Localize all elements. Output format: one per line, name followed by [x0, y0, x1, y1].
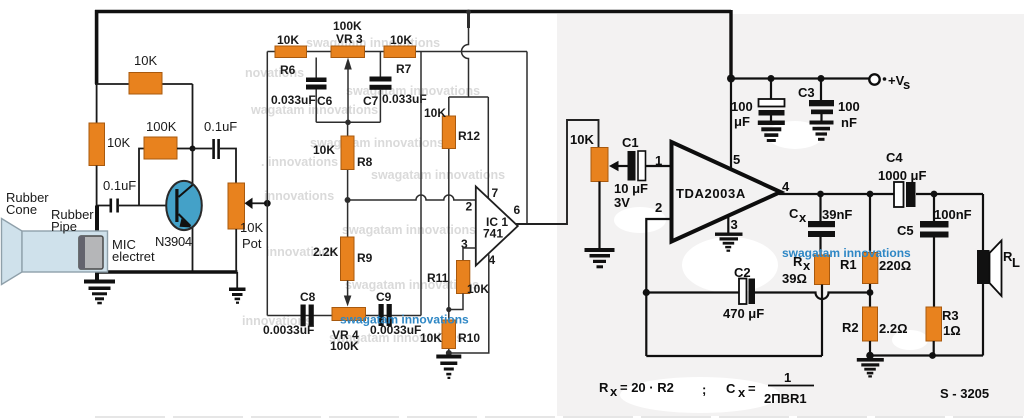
wire ground rail right	[866, 352, 983, 360]
ground pin3 TDA	[715, 216, 743, 252]
wire top row	[267, 51, 527, 53]
svg-text:innovations: innovations	[264, 189, 334, 203]
terminal +Vs	[869, 73, 910, 92]
resistor Rx	[782, 254, 830, 356]
svg-text:10 μF: 10 μF	[614, 181, 648, 196]
svg-text:7: 7	[492, 186, 499, 200]
svg-text:Cone: Cone	[6, 202, 37, 217]
resistor 10K top-left	[129, 53, 162, 94]
wire pin5 TDA	[730, 79, 732, 172]
svg-text:0.1uF: 0.1uF	[103, 178, 136, 193]
capacitor Cx	[789, 194, 852, 255]
wire supply rail right	[727, 75, 869, 83]
bottom scan edge	[95, 416, 1024, 418]
wiper arrow volume pot	[609, 161, 628, 171]
ground pot left	[229, 272, 246, 304]
capacitor 100uF	[731, 79, 785, 130]
svg-text:2ΠBR1: 2ΠBR1	[764, 391, 807, 406]
svg-text:Pipe: Pipe	[51, 219, 77, 234]
svg-text:TDA2003A: TDA2003A	[676, 186, 746, 201]
resistor R12	[424, 97, 480, 310]
svg-text:10K: 10K	[390, 33, 412, 47]
svg-text:10K: 10K	[467, 282, 489, 296]
svg-text:470 μF: 470 μF	[723, 306, 764, 321]
formula Rx Cx	[599, 370, 814, 406]
resistor R2	[842, 307, 908, 356]
svg-text:L: L	[1012, 255, 1020, 270]
resistor 10K left vertical	[89, 123, 130, 166]
svg-text:1: 1	[784, 370, 791, 385]
wire top supply rail	[95, 10, 731, 84]
wire collector drop	[192, 84, 194, 149]
svg-text:swagatam innovations: swagatam innovations	[306, 36, 440, 50]
wire left rail to R	[96, 84, 98, 123]
node collector junction	[190, 146, 196, 152]
svg-text:39nF: 39nF	[822, 207, 852, 222]
svg-text:C3: C3	[798, 85, 815, 100]
wire feedback vertical	[526, 52, 528, 225]
potentiometer 10K volume	[570, 132, 608, 248]
wire ground bus	[95, 270, 238, 274]
capacitor 0.1uF lower	[97, 178, 167, 213]
transistor Q1 N3904	[155, 149, 202, 272]
capacitor C1	[614, 135, 672, 210]
svg-text:100K: 100K	[146, 119, 177, 134]
svg-text:R7: R7	[396, 62, 412, 76]
resistor R3	[926, 307, 961, 356]
svg-text:0.1uF: 0.1uF	[204, 119, 237, 134]
svg-text:0.033uF: 0.033uF	[382, 92, 427, 106]
svg-text:R8: R8	[357, 155, 373, 169]
wire right vertical of twin-T	[420, 52, 422, 316]
node R8-R9 junction	[345, 197, 351, 203]
wire mid bottom row	[267, 315, 421, 317]
capacitor C9	[370, 290, 421, 337]
svg-text:C6: C6	[317, 94, 333, 108]
op-amp U1 IC1 741	[461, 187, 521, 268]
svg-text:3: 3	[731, 217, 738, 232]
svg-text:1000 μF: 1000 μF	[878, 168, 926, 183]
svg-text:C7: C7	[363, 94, 379, 108]
wire loop bottom	[646, 355, 822, 357]
wire 100K base branch	[139, 149, 144, 206]
node bias junction	[446, 307, 451, 312]
ground 100uF	[758, 121, 785, 143]
svg-text:2.2K: 2.2K	[313, 245, 339, 259]
svg-text:10K: 10K	[420, 331, 442, 345]
svg-text:3: 3	[461, 237, 468, 251]
svg-text:s: s	[903, 77, 910, 92]
svg-text:C9: C9	[376, 290, 392, 304]
ground mic	[84, 280, 115, 305]
svg-text:100K: 100K	[333, 19, 362, 33]
capacitor C4	[878, 150, 926, 207]
svg-text:swagatam innovations: swagatam innovations	[342, 223, 476, 237]
resistor R8	[313, 122, 373, 237]
resistor R9	[313, 237, 373, 281]
svg-text:10K: 10K	[240, 220, 263, 235]
svg-text:N3904: N3904	[155, 234, 192, 249]
svg-text:R: R	[599, 380, 609, 395]
wire R to cap junction	[96, 166, 98, 206]
capacitor C6	[271, 58, 333, 123]
svg-text:10K: 10K	[313, 143, 335, 157]
svg-text:C1: C1	[622, 135, 639, 150]
svg-text:VR 3: VR 3	[336, 32, 363, 46]
resistor R6	[275, 33, 307, 77]
capacitor C2	[723, 265, 764, 321]
resistor R10	[420, 310, 480, 354]
svg-text:5: 5	[733, 152, 740, 167]
svg-text:100K: 100K	[330, 339, 359, 353]
node pin4 ground junction	[446, 350, 452, 356]
svg-text:R10: R10	[458, 331, 480, 345]
wire supply drop right	[729, 10, 732, 79]
potentiometer VR4	[330, 308, 366, 354]
wire pin7	[488, 97, 498, 200]
svg-text:100: 100	[731, 99, 753, 114]
svg-text:10K: 10K	[277, 33, 299, 47]
potentiometer 10K left	[228, 183, 263, 272]
rubber cone	[2, 190, 108, 285]
svg-text:2: 2	[655, 200, 662, 215]
svg-text:2: 2	[466, 200, 473, 214]
capacitor C5	[897, 194, 972, 307]
wire mid left vertical	[266, 52, 268, 316]
wire pin2 TDA	[646, 219, 671, 356]
wire op-amp output	[516, 120, 599, 224]
wire pin3 step	[463, 248, 476, 261]
node wiper junction	[264, 200, 271, 207]
wire mic vertical	[95, 206, 99, 281]
svg-text:swagatam innovations: swagatam innovations	[340, 313, 469, 327]
svg-text:=: =	[748, 381, 756, 396]
svg-text:R11: R11	[427, 271, 449, 285]
resistor R11	[427, 261, 489, 310]
svg-text:swagatam innovations: swagatam innovations	[782, 246, 911, 260]
svg-text:741: 741	[483, 227, 503, 241]
svg-text:Pot: Pot	[242, 236, 262, 251]
svg-text:x: x	[738, 385, 746, 400]
wire pin2 feedback row with hop	[643, 289, 874, 299]
svg-text:C2: C2	[734, 265, 751, 280]
capacitor C7	[363, 52, 427, 123]
amplifier U2 TDA2003A	[655, 142, 790, 242]
wire output pin4	[779, 191, 983, 198]
svg-text:C4: C4	[886, 150, 903, 165]
svg-text:2.2Ω: 2.2Ω	[879, 321, 908, 336]
svg-text:0.033uF: 0.033uF	[271, 93, 316, 107]
svg-text:10K: 10K	[424, 106, 446, 120]
svg-text:C: C	[726, 381, 736, 396]
ground R2	[857, 358, 884, 378]
svg-text:10K: 10K	[134, 53, 157, 68]
capacitor C8	[263, 290, 316, 337]
svg-text:electret: electret	[112, 249, 155, 264]
svg-text:100nF: 100nF	[934, 207, 972, 222]
svg-text:μF: μF	[734, 114, 750, 129]
wire pin4	[449, 255, 489, 354]
svg-text:39Ω: 39Ω	[782, 271, 807, 286]
potentiometer VR3	[331, 19, 365, 125]
wire supply feed with hop	[462, 10, 471, 97]
ground C3	[810, 121, 834, 141]
svg-text:1Ω: 1Ω	[943, 323, 961, 338]
svg-text:R12: R12	[458, 129, 480, 143]
capacitor 0.1uF upper	[193, 119, 238, 183]
watermarks gray	[242, 36, 505, 345]
svg-text:220Ω: 220Ω	[879, 258, 911, 273]
svg-text:C: C	[789, 206, 799, 221]
resistor R7	[384, 33, 416, 76]
wiper arrow VR4	[344, 281, 352, 307]
ground volume pot	[585, 248, 615, 268]
wire pin2 from junction with hops	[348, 195, 476, 200]
wire 10K row	[95, 83, 193, 85]
svg-text:x: x	[799, 210, 807, 225]
svg-text:10K: 10K	[570, 132, 594, 147]
svg-text:C8: C8	[300, 290, 316, 304]
wire C6-C7 bottom	[316, 121, 380, 123]
speaker RL	[977, 194, 1020, 356]
svg-text:3V: 3V	[614, 195, 630, 210]
resistor R1	[840, 194, 911, 307]
svg-text:0.0033uF: 0.0033uF	[263, 323, 314, 337]
svg-text:= 20 · R2: = 20 · R2	[620, 380, 674, 395]
svg-text:1: 1	[655, 153, 662, 168]
resistor 100K	[144, 119, 193, 159]
svg-text:C5: C5	[897, 223, 914, 238]
svg-text:. innovations: . innovations	[261, 155, 338, 169]
svg-text:swagatam innovations: swagatam innovations	[371, 168, 505, 182]
svg-text:;: ;	[702, 382, 706, 397]
svg-text:6: 6	[514, 203, 521, 217]
svg-text:R9: R9	[357, 251, 373, 265]
svg-text:R6: R6	[280, 63, 296, 77]
capacitor C3	[798, 79, 860, 131]
svg-text:nF: nF	[841, 115, 857, 130]
svg-text:10K: 10K	[107, 135, 130, 150]
mic electret	[79, 236, 155, 269]
svg-text:S - 3205: S - 3205	[940, 386, 989, 401]
ground R10	[436, 355, 461, 380]
wiper arrow pot left	[245, 198, 265, 209]
svg-text:4: 4	[782, 179, 790, 194]
svg-text:R3: R3	[942, 308, 959, 323]
svg-text:100: 100	[838, 99, 860, 114]
svg-text:R2: R2	[842, 320, 859, 335]
wire box top	[449, 96, 489, 98]
svg-text:x: x	[610, 384, 618, 399]
